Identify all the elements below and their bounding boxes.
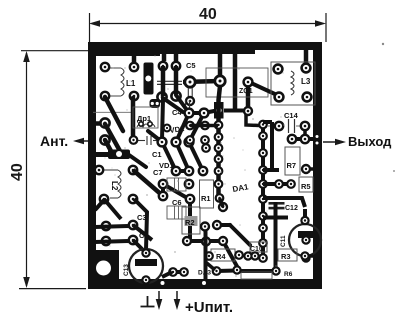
capacitor C12 <box>269 202 298 212</box>
node pad 133.5,140 <box>130 136 138 144</box>
capacitor between Dr1 pads <box>138 136 159 145</box>
component outline top center (ZQ1 body) <box>206 68 268 97</box>
wire L2 pad B down to C13 <box>134 199 147 250</box>
choke Dr1 (Др1) <box>133 107 158 128</box>
wire vertical x162 <box>161 66 166 96</box>
svg-text:ZQ1: ZQ1 <box>239 88 253 95</box>
node pad 305,256 with wire to border <box>301 252 313 259</box>
IC DA1 right pin column with vertical wire <box>259 121 267 262</box>
wire stub column to R2 pad <box>220 198 224 207</box>
power supply arrows <box>156 291 181 310</box>
node pad 237,270 <box>233 266 240 273</box>
svg-text:R2: R2 <box>185 218 195 227</box>
IC DA1 side pads grid <box>186 122 210 152</box>
electrolytic capacitor C13 <box>123 249 163 284</box>
electrolytic capacitor C11 <box>280 209 321 262</box>
wire DA1 column to C11 top <box>263 198 305 207</box>
label Ant (Ант.) with arrow <box>40 133 91 149</box>
thin outline line under L1 <box>93 111 133 113</box>
capacitor C14 <box>268 111 309 133</box>
component outline above bottom border <box>241 272 272 279</box>
svg-text:C7: C7 <box>153 168 163 177</box>
diode component with via (8 box) <box>214 102 224 119</box>
wire vertical x275 right of DA1 <box>274 202 278 268</box>
jumper component with via <box>144 63 154 95</box>
wire C14 right pad down to output <box>303 126 307 138</box>
transistor DA3 pads <box>169 267 237 276</box>
svg-text:L2: L2 <box>110 181 119 191</box>
wire diagonal from C5 left pad <box>163 98 183 112</box>
wire border to jumper <box>93 152 112 157</box>
svg-text:Выход: Выход <box>348 134 392 149</box>
svg-text:R3: R3 <box>281 252 291 261</box>
svg-text:R1: R1 <box>201 194 211 203</box>
svg-text:R4: R4 <box>216 252 226 261</box>
svg-text:L3: L3 <box>301 77 311 86</box>
dimension 40 top <box>89 6 326 43</box>
wire row y184 right <box>263 182 291 186</box>
node pad 204,113 <box>200 109 209 118</box>
ground symbol <box>141 296 155 307</box>
node pad 248,111 <box>244 107 252 115</box>
dimension 40 left <box>9 51 91 289</box>
mounting pad bottom-left <box>88 250 119 289</box>
wire bottom area <box>162 230 206 281</box>
center wire mesh <box>148 95 276 271</box>
svg-text:R5: R5 <box>301 182 311 191</box>
pads near R2 <box>183 203 227 246</box>
pads C3 C9 left group <box>100 195 137 245</box>
svg-text:C1: C1 <box>152 150 162 159</box>
ground trace along top edge <box>96 48 160 56</box>
svg-text:C14: C14 <box>284 111 299 120</box>
resistor R5 <box>299 177 313 192</box>
label Output (Выход) with arrow <box>323 134 392 149</box>
PCB board border <box>88 42 322 289</box>
inductor L2 <box>95 166 137 198</box>
wire from jumper to L2 node <box>129 155 146 167</box>
svg-text:C13: C13 <box>123 264 130 276</box>
vias in right border near output <box>316 135 319 145</box>
jumper component left with via <box>108 150 130 160</box>
capacitor C6 <box>167 198 186 219</box>
wire vertical x176 <box>174 66 179 94</box>
antenna input pads <box>93 118 110 144</box>
svg-text:C5: C5 <box>186 61 196 70</box>
svg-text:Ант.: Ант. <box>40 133 68 149</box>
big pads and wire near top center <box>183 76 225 87</box>
vias in bottom ground strip <box>161 281 207 285</box>
wire branch to DA3 pad <box>206 262 216 270</box>
wire row y125 <box>190 124 218 128</box>
resistor R2 <box>182 207 200 234</box>
node pad 189,113 <box>185 109 194 118</box>
pads L1 group <box>101 63 138 100</box>
pads row y184 right <box>275 180 295 188</box>
wire L2 to C3 diagonal <box>133 170 163 196</box>
svg-text:C12: C12 <box>285 205 298 212</box>
scan noise speckles <box>104 55 284 277</box>
wire stubs from top ground <box>134 48 306 111</box>
capacitor C7 outline <box>167 178 186 191</box>
resistor R4 <box>205 249 243 261</box>
svg-text:R6: R6 <box>284 271 293 278</box>
svg-text:40: 40 <box>199 6 217 23</box>
svg-text:C4: C4 <box>172 108 182 117</box>
svg-text:R7: R7 <box>287 161 297 170</box>
svg-text:40: 40 <box>9 163 26 181</box>
output net wire <box>288 135 320 143</box>
capacitor C4 bars under big pad <box>188 88 192 97</box>
resistor R1 <box>200 180 214 208</box>
inductor L3 <box>271 62 315 105</box>
resistor R3 <box>278 249 297 261</box>
node pad 190,101 <box>186 97 194 105</box>
resistor R6 label <box>272 267 292 278</box>
wire right column x272 <box>263 122 279 170</box>
scan speck right mid <box>393 170 395 172</box>
pads C5 group <box>157 62 180 102</box>
capacitor C10 <box>250 242 267 253</box>
wires left border to C3/C9 <box>95 199 152 252</box>
svg-text:C11: C11 <box>280 235 287 247</box>
wire step from node down to DA1 column <box>246 113 259 126</box>
wire row y217 <box>263 216 288 220</box>
svg-text:+Uпит.: +Uпит. <box>185 299 233 316</box>
wire to node at 248,111 <box>224 109 248 113</box>
IC DA1 long vertical trace <box>219 86 221 200</box>
resistor R7 <box>285 147 314 175</box>
component C2 with two holes <box>150 99 161 108</box>
pads C10 row refined <box>244 252 258 259</box>
scan speck top right <box>382 43 384 45</box>
svg-text:L1: L1 <box>126 79 136 88</box>
wire diagonals left-mid <box>105 97 133 151</box>
capacitor symbol near C5 <box>157 81 182 84</box>
IC DA1 left pin column on trace <box>215 121 224 202</box>
capacitor C4 symbol <box>186 100 190 116</box>
crystal ZQ1 <box>239 78 277 95</box>
inductor L1 <box>110 68 136 96</box>
center pad cluster <box>158 125 208 204</box>
